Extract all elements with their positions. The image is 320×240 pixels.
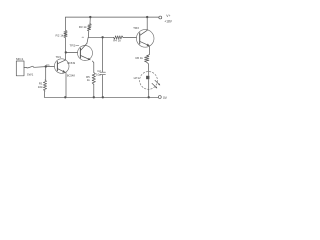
svg-text:+18V: +18V [164,19,172,23]
svg-text:TR2: TR2 [69,43,75,47]
svg-text:BC548: BC548 [67,74,75,78]
svg-text:10k: 10k [38,85,43,89]
svg-text:1k: 1k [87,78,91,82]
svg-text:10µ: 10µ [96,72,101,76]
svg-text:R4 1k: R4 1k [113,38,121,42]
svg-text:SW1: SW1 [27,72,34,76]
svg-text:R2 1k: R2 1k [56,34,64,38]
svg-text:V+: V+ [166,14,170,18]
svg-text:LP1: LP1 [134,76,140,80]
svg-text:TR3: TR3 [133,26,139,30]
svg-text:R6 1k: R6 1k [135,56,143,60]
svg-text:R3 1k: R3 1k [79,25,87,29]
svg-text:MIC1: MIC1 [16,57,24,61]
svg-text:0V: 0V [163,96,168,100]
svg-text:BC549: BC549 [67,61,75,65]
svg-text:C1: C1 [46,63,50,67]
svg-text:TR1: TR1 [56,55,62,59]
